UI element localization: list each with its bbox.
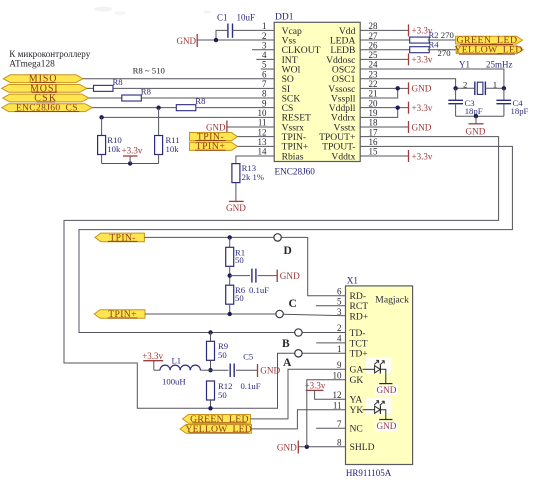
junction bottom rail/R12: [208, 406, 212, 410]
junction pins20/19: [396, 105, 400, 109]
svg-text:Rbias: Rbias: [282, 151, 304, 162]
svg-text:+3.3v: +3.3v: [122, 145, 143, 155]
label B: [282, 338, 290, 350]
svg-text:GND: GND: [412, 122, 432, 132]
wire R2 to GREEN_LED: [428, 39, 456, 41]
junction R1/R6/cap: [228, 273, 232, 277]
resistor R10: [98, 117, 123, 154]
ground GND (pins22/21): [360, 82, 432, 94]
label X1: [347, 275, 359, 285]
net flag TPIN+ (mid): [94, 309, 145, 320]
svg-text:7: 7: [337, 419, 342, 429]
wire R10-R11 rail: [102, 163, 159, 165]
svg-text:12: 12: [258, 127, 267, 137]
inductor L1: [154, 356, 211, 387]
svg-text:NC: NC: [350, 424, 363, 435]
svg-text:9: 9: [337, 360, 342, 370]
wire TPIN+ row: [145, 313, 276, 315]
svg-text:18pF: 18pF: [511, 106, 529, 116]
svg-text:R8: R8: [195, 96, 206, 106]
svg-text:L1: L1: [172, 356, 182, 366]
wire TPIN- to pin12: [238, 136, 275, 138]
label A: [283, 357, 292, 369]
junction TPIN+/R6: [228, 312, 232, 316]
wire GND to pin2: [197, 39, 274, 41]
svg-text:C: C: [289, 298, 297, 310]
svg-text:GA: GA: [350, 365, 364, 376]
ground GND (pin11): [206, 121, 227, 134]
junction TPIN-/R1: [228, 235, 232, 239]
svg-text:GND: GND: [466, 126, 486, 136]
wire pin14 to R13: [236, 156, 274, 164]
ground GND (C1/Vss): [177, 34, 198, 47]
junction C1/GND: [214, 38, 218, 42]
svg-text:18pF: 18pF: [465, 106, 483, 116]
svg-text:5: 5: [337, 297, 342, 307]
svg-text:22: 22: [369, 79, 378, 89]
resistor R1: [226, 237, 245, 266]
svg-text:R8: R8: [141, 86, 152, 96]
net flag YELLOW_LED (bottom): [180, 424, 252, 435]
svg-text:7: 7: [262, 79, 267, 89]
net flag TPIN- (mid): [95, 232, 144, 243]
svg-text:10k: 10k: [107, 144, 121, 154]
wire MISO to pin6: [83, 78, 274, 80]
capacitor C4: [496, 88, 528, 116]
capacitor C3: [448, 88, 482, 116]
svg-text:100uH: 100uH: [162, 377, 186, 387]
wire R8 to pin7: [113, 87, 274, 89]
ground GND (crystal): [466, 116, 486, 136]
svg-text:19: 19: [369, 108, 379, 118]
svg-text:A: A: [283, 357, 292, 369]
label ENC28J60: [275, 167, 316, 177]
resistor R8 (CSK): [122, 86, 152, 101]
junction crystal left: [453, 86, 457, 90]
crystal Y1: [456, 79, 504, 95]
label HR911105A: [346, 468, 392, 478]
svg-text:0.1uF: 0.1uF: [241, 381, 261, 391]
svg-text:ENC28J60: ENC28J60: [275, 167, 316, 177]
wire RESET: [102, 116, 275, 118]
junction GND/GK: [305, 445, 309, 449]
svg-text:DD1: DD1: [275, 13, 294, 23]
svg-text:2: 2: [337, 323, 342, 333]
net flag MOSI: [2, 83, 87, 94]
LED (yellow, YK): [363, 397, 398, 431]
smudge (scan artifact): [94, 7, 211, 16]
svg-text:ATmega128: ATmega128: [9, 60, 55, 70]
wire pin23 OSC1 to crystal: [360, 79, 455, 89]
wire C3-C4 rail: [456, 115, 504, 117]
wire R6 bottom: [229, 304, 231, 314]
svg-text:27: 27: [369, 31, 379, 41]
wire D to magjack pin6: [281, 237, 345, 295]
ground GND (pin18): [360, 121, 432, 133]
wire MOSI to R8: [87, 87, 94, 89]
junction B/R9: [208, 330, 212, 334]
svg-text:+3.3v: +3.3v: [412, 103, 433, 113]
svg-text:270: 270: [441, 30, 455, 40]
svg-text:C5: C5: [243, 351, 253, 361]
svg-text:17: 17: [369, 127, 379, 137]
svg-text:+3.3v: +3.3v: [142, 351, 163, 361]
svg-text:GK: GK: [350, 375, 364, 386]
net flag TPIN+ (at IC): [190, 141, 238, 152]
svg-text:GND: GND: [226, 203, 246, 213]
svg-text:Vddtx: Vddtx: [331, 151, 355, 162]
svg-text:2k 1%: 2k 1%: [242, 172, 264, 182]
junction R9/R12/L1/C5: [208, 368, 212, 372]
svg-text:6: 6: [262, 69, 267, 79]
svg-text:TCT: TCT: [350, 338, 368, 349]
power +3.3v (pins20/19): [360, 102, 433, 114]
wire YELLOW_LED to YK: [251, 410, 345, 429]
wire pin1 to C1: [233, 29, 275, 31]
svg-text:16: 16: [369, 137, 379, 147]
svg-text:R8 ~ 510: R8 ~ 510: [133, 66, 166, 76]
wire pin27 to R2: [360, 39, 410, 41]
stub pin5: [261, 68, 275, 70]
resistor R6: [226, 285, 270, 304]
svg-text:3: 3: [337, 307, 342, 317]
stub pin5 RCT: [316, 305, 346, 307]
svg-text:28: 28: [369, 21, 379, 31]
wire GND to SHLD: [298, 446, 345, 448]
svg-text:1: 1: [493, 79, 497, 89]
junction crystal right: [502, 86, 506, 90]
svg-text:11: 11: [333, 400, 342, 410]
svg-text:50: 50: [235, 255, 244, 265]
wire R8 to pin9: [196, 107, 274, 109]
svg-text:YK: YK: [350, 405, 364, 416]
wire pin19 join: [360, 108, 398, 118]
wire R11 bottom: [158, 155, 160, 164]
wire R10 bottom: [101, 155, 103, 164]
svg-text:6: 6: [337, 286, 342, 296]
wire TPIN- row: [144, 236, 274, 238]
ground GND (R13): [226, 201, 246, 213]
svg-text:50: 50: [218, 390, 227, 400]
svg-text:RCT: RCT: [350, 301, 369, 312]
svg-text:9: 9: [262, 98, 267, 108]
junction pins22/21: [396, 86, 400, 90]
connection point B: [295, 329, 302, 336]
net flag CSK: [3, 93, 89, 104]
stub pin4: [256, 58, 274, 60]
svg-text:GND: GND: [412, 84, 432, 94]
wire C1 left leg: [216, 30, 228, 40]
svg-text:GND: GND: [280, 271, 300, 281]
wire B to magjack pin2: [302, 332, 345, 334]
stub pin7 NC: [316, 427, 345, 429]
svg-text:Y1: Y1: [459, 60, 470, 70]
svg-text:1: 1: [337, 344, 342, 354]
resistor R11: [155, 108, 180, 155]
wire TPIN+ to pin13: [238, 145, 275, 147]
ground GND (RD bias cap): [277, 270, 300, 283]
capacitor (RD bias): [230, 269, 278, 283]
Magjack pin names and numbers: [333, 286, 375, 453]
junction CS/R11: [156, 105, 160, 109]
svg-text:SHLD: SHLD: [350, 442, 375, 453]
label C: [289, 298, 297, 310]
svg-text:GND: GND: [277, 442, 297, 452]
svg-text:5: 5: [262, 60, 267, 70]
svg-text:11: 11: [258, 118, 267, 128]
net flag GREEN_LED: [456, 35, 523, 46]
svg-text:14: 14: [258, 147, 268, 157]
resistor R2: [410, 30, 455, 43]
wire GREEN_LED to GA: [250, 369, 345, 419]
svg-text:10: 10: [333, 370, 343, 380]
wire R4 to YELLOW_LED: [428, 49, 457, 51]
IC pin names and numbers: [258, 21, 379, 162]
IC DD1 ENC28J60 body: [274, 22, 360, 161]
net flag ENC28J60_CS: [2, 104, 92, 114]
capacitor C1: [217, 13, 255, 38]
svg-text:TD-: TD-: [350, 328, 366, 339]
stub pin4 TCT: [316, 342, 345, 344]
svg-text:18: 18: [369, 118, 379, 128]
ground GND (C5): [258, 364, 281, 377]
wire CSK to R8: [89, 97, 122, 99]
svg-text:8: 8: [337, 438, 342, 448]
resistor R9: [207, 333, 229, 361]
power +3.3v (R10/R11): [122, 145, 143, 163]
svg-text:15: 15: [369, 147, 379, 157]
svg-text:R2: R2: [429, 30, 439, 40]
svg-text:HR911105A: HR911105A: [346, 468, 392, 478]
wire CS to R8: [92, 107, 176, 109]
stub pin3: [252, 49, 274, 51]
capacitor C5: [211, 351, 261, 391]
label Magjack: [375, 294, 409, 305]
power +3.3v (YA): [305, 381, 346, 400]
svg-text:X1: X1: [347, 275, 359, 285]
net flag MISO: [3, 74, 83, 85]
wire pin26 to R4: [360, 49, 410, 51]
svg-text:+3.3v: +3.3v: [412, 55, 433, 65]
connection point C: [276, 310, 283, 317]
junction RESET/R10: [99, 115, 103, 119]
svg-text:YA: YA: [350, 395, 363, 406]
wire R8 to pin8: [141, 97, 274, 99]
svg-text:4: 4: [262, 50, 267, 60]
wire R9 bottom: [210, 360, 212, 370]
svg-text:2: 2: [463, 79, 467, 89]
wire pin21 join: [360, 88, 398, 98]
resistor R8 (MOSI): [94, 77, 124, 92]
svg-text:GND: GND: [377, 421, 397, 431]
svg-text:2: 2: [262, 31, 267, 41]
wire pin24 OSC2 to crystal: [360, 69, 504, 88]
svg-text:RD+: RD+: [350, 312, 369, 323]
wire R13 to GND: [235, 183, 237, 202]
svg-text:0.1uF: 0.1uF: [249, 285, 269, 295]
svg-text:8: 8: [262, 89, 267, 99]
wire R12 bottom: [210, 400, 212, 408]
label DD1: [275, 13, 294, 23]
svg-text:ENC28J60_CS: ENC28J60_CS: [16, 104, 78, 114]
svg-text:13: 13: [258, 137, 268, 147]
svg-text:4: 4: [337, 334, 342, 344]
wire GND to pin11: [227, 126, 274, 128]
svg-text:3: 3: [262, 40, 267, 50]
svg-text:23: 23: [369, 69, 379, 79]
net flag GREEN_LED (bottom): [183, 414, 251, 425]
svg-text:50: 50: [235, 293, 244, 303]
resistor R4: [410, 40, 451, 59]
svg-text:26: 26: [369, 40, 379, 50]
power +3.3v (L1): [142, 351, 163, 370]
resistor R13: [232, 163, 264, 183]
label D: [284, 245, 292, 257]
connection point D: [274, 234, 281, 241]
wire TPOUT+ loop: [64, 137, 499, 409]
svg-text:C1: C1: [217, 13, 228, 23]
net flag YELLOW_LED: [454, 45, 523, 56]
svg-text:20: 20: [369, 98, 379, 108]
svg-text:TD+: TD+: [350, 349, 368, 360]
wire R1 bottom: [229, 266, 231, 285]
svg-text:R8: R8: [113, 77, 124, 87]
ground GND (GK/SHLD): [277, 441, 298, 454]
junction crystal GND: [474, 114, 478, 118]
label 25mHz: [486, 60, 513, 70]
svg-text:D: D: [284, 245, 292, 257]
svg-text:25mHz: 25mHz: [486, 60, 513, 70]
svg-text:12: 12: [333, 390, 342, 400]
svg-text:50: 50: [218, 350, 227, 360]
svg-text:К микроконтроллеру: К микроконтроллеру: [9, 49, 90, 59]
svg-text:B: B: [282, 338, 290, 350]
power +3.3v (pin15 Vddtx): [360, 150, 433, 162]
label ATmega128: [9, 60, 55, 70]
label: to microcontroller: [9, 49, 90, 59]
power +3.3v (pin28 Vdd): [360, 24, 433, 36]
connection point A: [295, 350, 302, 357]
label R8 ~ 510: [133, 66, 166, 76]
svg-text:GND: GND: [177, 36, 197, 46]
IC X1 Magjack body: [346, 286, 413, 465]
wire A to magjack pin1: [302, 352, 345, 354]
svg-text:10k: 10k: [166, 144, 180, 154]
svg-text:+3.3v: +3.3v: [412, 151, 433, 161]
junction +3.3v tap: [128, 161, 132, 165]
svg-text:24: 24: [369, 60, 379, 70]
power +3.3v (pin25 Vddosc): [360, 53, 433, 65]
svg-text:GND: GND: [377, 385, 397, 395]
svg-text:25: 25: [369, 50, 379, 60]
wire C to magjack pin3: [283, 314, 345, 316]
svg-text:+3.3v: +3.3v: [305, 381, 326, 391]
wire GK to GND: [307, 380, 346, 447]
svg-text:1: 1: [262, 21, 267, 31]
svg-text:21: 21: [369, 89, 378, 99]
label Y1: [459, 60, 470, 70]
wire TPOUT- loop: [79, 146, 512, 332]
LED (green, GA): [363, 357, 398, 395]
svg-text:10uF: 10uF: [237, 13, 256, 23]
resistor R8 (CS): [176, 96, 206, 111]
svg-text:10: 10: [258, 108, 268, 118]
svg-text:GND: GND: [260, 366, 280, 376]
resistor R12: [207, 381, 233, 400]
net flag TPIN- (at IC): [190, 132, 238, 143]
svg-text:Magjack: Magjack: [375, 294, 409, 305]
